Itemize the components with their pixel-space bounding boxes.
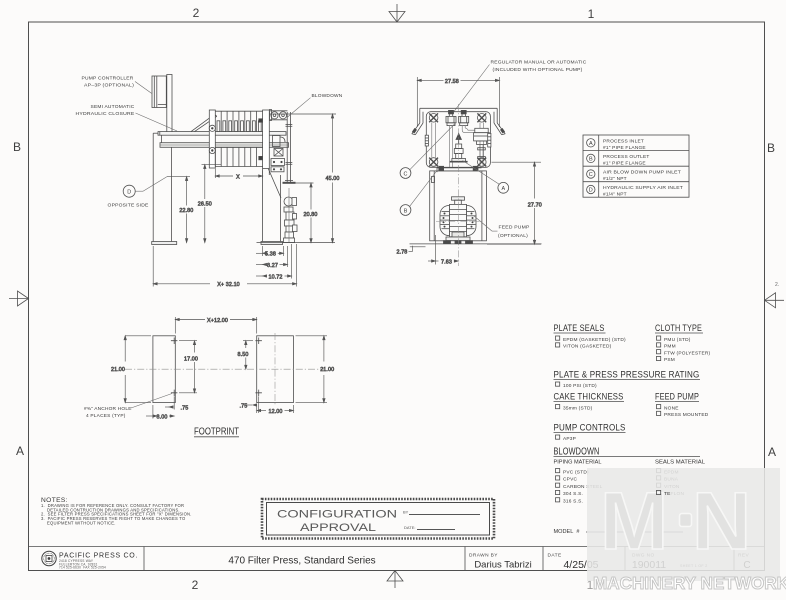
footprint centerline vertical right pad bbox=[274, 333, 276, 406]
side feed pump assembly bbox=[268, 169, 297, 243]
svg-text:20.80: 20.80 bbox=[304, 212, 318, 218]
svg-text:X: X bbox=[236, 174, 240, 180]
svg-text:D: D bbox=[589, 188, 593, 194]
callout B bbox=[400, 171, 437, 216]
svg-text:HYDRAULIC CLOSURE: HYDRAULIC CLOSURE bbox=[76, 111, 135, 117]
machinery network watermark overlay bbox=[587, 468, 780, 581]
svg-text:REGULATOR MANUAL OR AUTOMATIC: REGULATOR MANUAL OR AUTOMATIC bbox=[491, 60, 587, 66]
svg-text:PRESS MOUNTED: PRESS MOUNTED bbox=[664, 412, 709, 418]
fold marker top center bbox=[389, 4, 405, 22]
pacific press logo seal bbox=[42, 551, 56, 565]
anchor hole crosses bbox=[171, 338, 262, 397]
dim 12.00 bbox=[257, 405, 294, 415]
teflon checkbox highlight bbox=[657, 490, 671, 497]
regulator down pipe bbox=[478, 145, 486, 168]
svg-text:A: A bbox=[589, 141, 593, 147]
svg-text:714 525-6630 FAX 525-2054: 714 525-6630 FAX 525-2054 bbox=[59, 566, 106, 570]
feed pump label bbox=[474, 216, 530, 240]
dim 17.00 bbox=[179, 341, 198, 393]
regulator label bbox=[453, 60, 587, 113]
svg-text:1: 1 bbox=[588, 7, 595, 21]
right stand column bbox=[261, 169, 283, 245]
svg-text:MACHINERY NETWORK: MACHINERY NETWORK bbox=[593, 573, 786, 593]
svg-text:HYDRAULIC SUPPLY AIR INLET: HYDRAULIC SUPPLY AIR INLET bbox=[603, 185, 683, 191]
callout C bbox=[400, 122, 456, 178]
feed pump heading bbox=[655, 392, 699, 402]
pump controls heading bbox=[554, 423, 626, 433]
svg-text:PROCESS OUTLET: PROCESS OUTLET bbox=[603, 154, 650, 160]
svg-text:B: B bbox=[13, 140, 21, 154]
piping elbow and gate valve bbox=[271, 136, 285, 166]
svg-text:BY: BY bbox=[403, 510, 409, 515]
fold marker bottom center bbox=[387, 571, 403, 589]
svg-text:MODEL #: MODEL # bbox=[554, 529, 580, 535]
svg-text:PMM: PMM bbox=[664, 344, 676, 350]
blowdown top valve cluster bbox=[270, 110, 288, 121]
head plate bbox=[259, 110, 270, 169]
svg-text:C: C bbox=[404, 171, 408, 177]
svg-text:35mm (STD): 35mm (STD) bbox=[563, 405, 593, 411]
svg-text:PUMP CONTROLLER: PUMP CONTROLLER bbox=[82, 76, 134, 82]
left foot pad bbox=[153, 336, 175, 403]
plate seals heading bbox=[554, 323, 606, 333]
svg-text:#1" PIPE FLANGE: #1" PIPE FLANGE bbox=[603, 145, 646, 151]
plate and press pressure rating heading bbox=[554, 370, 701, 380]
ground line side view bbox=[257, 242, 336, 244]
svg-text:N: N bbox=[692, 476, 751, 567]
svg-text:CONFIGURATION: CONFIGURATION bbox=[277, 509, 397, 521]
svg-text:12.00: 12.00 bbox=[269, 409, 283, 415]
dim 22.80 bbox=[167, 177, 193, 243]
svg-text:2: 2 bbox=[192, 578, 199, 592]
pacific press co name and address bbox=[59, 553, 138, 570]
pipe elbow to regulator bbox=[462, 126, 477, 133]
blowdown heading bbox=[554, 447, 701, 458]
svg-text:VITON (GASKETED): VITON (GASKETED) bbox=[563, 344, 612, 350]
svg-text:B: B bbox=[404, 208, 408, 214]
dim 10.72 bbox=[256, 244, 292, 280]
svg-text:A: A bbox=[16, 444, 24, 458]
svg-text:316 S.S.: 316 S.S. bbox=[563, 499, 583, 505]
svg-text:A: A bbox=[768, 445, 776, 459]
dim 21.00 right bbox=[296, 336, 335, 403]
dim 7.63 bbox=[428, 235, 458, 265]
dim 21.00 left bbox=[111, 336, 151, 403]
svg-text:NONE: NONE bbox=[664, 405, 679, 411]
svg-text:PLATE & PRESS PRESSURE RATING: PLATE & PRESS PRESSURE RATING bbox=[554, 370, 700, 380]
svg-text:27.58: 27.58 bbox=[445, 79, 459, 85]
model number line bbox=[554, 529, 684, 535]
svg-text:PROCESS INLET: PROCESS INLET bbox=[603, 138, 644, 144]
svg-text:2.78: 2.78 bbox=[397, 250, 408, 256]
svg-text:21.00: 21.00 bbox=[111, 367, 125, 373]
bottom manifold pipe bbox=[437, 166, 482, 172]
svg-text:#1/4" NPT: #1/4" NPT bbox=[603, 192, 627, 198]
closure support column bbox=[167, 75, 172, 134]
svg-text:BLOWDOWN: BLOWDOWN bbox=[312, 93, 343, 99]
configuration approval stamp bbox=[262, 499, 494, 539]
svg-text:26.50: 26.50 bbox=[198, 201, 212, 207]
callout A bbox=[463, 161, 509, 194]
svg-text:.75: .75 bbox=[181, 406, 189, 412]
svg-text:FEED PUMP: FEED PUMP bbox=[655, 392, 699, 402]
pump controls checkbox bbox=[556, 435, 577, 442]
left process pipe bbox=[450, 126, 453, 167]
relief valve center bbox=[450, 134, 468, 162]
cloth type heading bbox=[655, 323, 703, 333]
dim .75 left bbox=[165, 397, 188, 412]
left tie rod bbox=[432, 123, 436, 158]
ground line front bbox=[410, 243, 542, 245]
svg-text:2.: 2. bbox=[775, 282, 779, 288]
svg-text:.75: .75 bbox=[240, 403, 248, 409]
dim 5.38 bbox=[256, 246, 284, 258]
dim 8.27 bbox=[256, 246, 288, 269]
hatched cylinder right edge bbox=[488, 133, 491, 147]
connection legend table bbox=[583, 135, 689, 198]
svg-text:SEALS MATERIAL: SEALS MATERIAL bbox=[655, 460, 705, 466]
svg-text:DATE:: DATE: bbox=[404, 525, 415, 530]
pipe fitting below head plate bbox=[271, 167, 284, 172]
svg-text:27.70: 27.70 bbox=[528, 203, 542, 209]
opposite side callout D bbox=[108, 177, 168, 209]
fold marker right center bbox=[765, 293, 785, 308]
air regulator bbox=[474, 128, 490, 144]
svg-text:SEMI AUTOMATIC: SEMI AUTOMATIC bbox=[91, 104, 135, 110]
svg-text:DRAWN BY: DRAWN BY bbox=[469, 553, 498, 559]
svg-text:PUMP CONTROLS: PUMP CONTROLS bbox=[554, 423, 626, 433]
svg-text:M: M bbox=[600, 476, 668, 567]
right foot pad bbox=[257, 336, 294, 403]
title block frame bbox=[29, 547, 765, 571]
svg-text:8.00: 8.00 bbox=[157, 414, 168, 420]
dim 27.58 bbox=[417, 77, 499, 127]
svg-text:(OPTIONAL): (OPTIONAL) bbox=[498, 233, 528, 239]
plate seals checkboxes bbox=[556, 336, 627, 350]
svg-text:#⅜" ANCHOR HOLE: #⅜" ANCHOR HOLE bbox=[84, 406, 132, 412]
svg-text:4 PLACES (TYP): 4 PLACES (TYP) bbox=[86, 413, 126, 419]
svg-text:17.00: 17.00 bbox=[184, 356, 198, 362]
feed pump front bbox=[440, 197, 476, 244]
pressure rating checkbox bbox=[556, 382, 597, 389]
lower filter plate pack bbox=[215, 147, 262, 166]
dim X+12.00 bbox=[175, 317, 256, 334]
svg-text:45.00: 45.00 bbox=[326, 176, 340, 182]
cloth type checkboxes bbox=[657, 336, 711, 363]
lifting arm diagonal brace bbox=[191, 114, 217, 131]
svg-text:8.50: 8.50 bbox=[238, 352, 249, 358]
svg-text:D: D bbox=[127, 190, 131, 196]
dim 45.00 bbox=[270, 114, 340, 243]
dim 8.00 bbox=[146, 405, 174, 420]
svg-text:8.27: 8.27 bbox=[267, 263, 278, 269]
svg-text:BLOWDOWN: BLOWDOWN bbox=[554, 447, 600, 458]
svg-text:X+12.00: X+12.00 bbox=[207, 318, 228, 324]
svg-text:B: B bbox=[589, 156, 593, 162]
svg-text:AP–3P (OPTIONAL): AP–3P (OPTIONAL) bbox=[84, 83, 134, 89]
upper filter plate pack bbox=[215, 111, 262, 131]
footprint title bbox=[194, 427, 239, 438]
cake thickness heading bbox=[554, 392, 625, 402]
hatched cylinder left edge bbox=[425, 135, 428, 146]
dim 8.50 bbox=[238, 341, 253, 370]
svg-text:470 Filter Press, Standard Ser: 470 Filter Press, Standard Series bbox=[228, 556, 375, 567]
svg-text:APPROVAL: APPROVAL bbox=[300, 522, 376, 534]
svg-text:PSM: PSM bbox=[664, 357, 675, 363]
front centerline vertical bbox=[457, 104, 459, 266]
svg-text:PIPING MATERIAL: PIPING MATERIAL bbox=[554, 460, 602, 466]
piping material checkboxes bbox=[556, 469, 603, 505]
cake thickness checkbox bbox=[556, 405, 593, 412]
svg-text:TE: TE bbox=[664, 491, 671, 497]
notes block bbox=[41, 497, 192, 526]
svg-text:10.72: 10.72 bbox=[269, 274, 283, 280]
front centerline horizontal pump bbox=[436, 221, 481, 223]
svg-text:7.63: 7.63 bbox=[441, 259, 452, 265]
blowdown outlet blind flange bbox=[283, 181, 296, 183]
footprint centerline horizontal bbox=[125, 368, 324, 370]
svg-text:EQUIPMENT WITHOUT NOTICE.: EQUIPMENT WITHOUT NOTICE. bbox=[47, 521, 116, 526]
svg-text:PLATE SEALS: PLATE SEALS bbox=[554, 323, 605, 333]
head plate front (rounded) bbox=[426, 112, 490, 168]
dim X plate pack bbox=[215, 169, 262, 181]
svg-text:(INCLUDED WITH OPTIONAL PUMP): (INCLUDED WITH OPTIONAL PUMP) bbox=[493, 67, 583, 73]
svg-text:FEED PUMP: FEED PUMP bbox=[499, 225, 530, 231]
svg-text:A: A bbox=[501, 186, 505, 192]
right tie rod bbox=[480, 123, 484, 158]
follower plate bbox=[209, 110, 215, 168]
dim 27.70 bbox=[487, 162, 542, 244]
dim 26.50 bbox=[198, 165, 221, 243]
svg-text:#1/2" NPT: #1/2" NPT bbox=[603, 176, 627, 182]
svg-text:5.38: 5.38 bbox=[265, 252, 276, 258]
fold marker left center bbox=[9, 291, 29, 306]
svg-text:21.00: 21.00 bbox=[320, 367, 334, 373]
svg-text:AIR BLOW DOWN PUMP INLET: AIR BLOW DOWN PUMP INLET bbox=[603, 170, 681, 176]
semi automatic hydraulic closure label bbox=[76, 104, 178, 131]
pump controller label bbox=[82, 76, 152, 94]
closure beam upper bbox=[158, 132, 286, 136]
svg-text:CLOTH TYPE: CLOTH TYPE bbox=[655, 323, 702, 333]
svg-text:100 PSI (STD): 100 PSI (STD) bbox=[563, 383, 597, 389]
svg-text:304 S.S.: 304 S.S. bbox=[563, 491, 583, 497]
dim X+ 32.10 bbox=[153, 244, 296, 288]
closure beam lower (side bar) bbox=[160, 143, 289, 148]
svg-text:FOOTPRINT: FOOTPRINT bbox=[194, 427, 239, 438]
corner tie rod nuts bbox=[429, 113, 486, 166]
dim 20.80 bbox=[294, 183, 318, 243]
svg-text:AP3P: AP3P bbox=[563, 436, 576, 442]
blowdown vertical pipe bbox=[286, 112, 293, 183]
svg-text:2: 2 bbox=[193, 6, 200, 20]
svg-text:22.80: 22.80 bbox=[179, 208, 193, 214]
anchor hole label bbox=[84, 394, 172, 420]
dim .75 right bbox=[240, 397, 259, 414]
svg-text:EPDM (GASKETED) (STD): EPDM (GASKETED) (STD) bbox=[563, 337, 626, 343]
feed pump checkboxes bbox=[657, 405, 709, 419]
svg-text:CPVC: CPVC bbox=[563, 477, 577, 483]
pump controller panel bbox=[152, 76, 166, 108]
dim 2.78 bbox=[397, 246, 426, 256]
svg-text:FTW (POLYESTER): FTW (POLYESTER) bbox=[664, 350, 711, 356]
hood side wings bbox=[412, 108, 505, 135]
svg-text:OPPOSITE SIDE: OPPOSITE SIDE bbox=[108, 203, 149, 209]
svg-text:#1" PIPE FLANGE: #1" PIPE FLANGE bbox=[603, 160, 646, 166]
svg-text:CAKE THICKNESS: CAKE THICKNESS bbox=[554, 392, 624, 402]
seals material checkboxes bbox=[657, 469, 685, 498]
svg-text:X+ 32.10: X+ 32.10 bbox=[217, 282, 240, 288]
top gland left bbox=[446, 110, 456, 125]
left stand column bbox=[152, 133, 177, 244]
svg-text:PMU (STD): PMU (STD) bbox=[664, 337, 691, 343]
svg-text:PVC (STD): PVC (STD) bbox=[563, 469, 589, 475]
svg-text:C: C bbox=[589, 172, 593, 178]
svg-text:Darius Tabrizi: Darius Tabrizi bbox=[474, 560, 531, 571]
blowdown label bbox=[288, 93, 343, 117]
top gland right bbox=[459, 110, 469, 125]
svg-text:DATE: DATE bbox=[548, 553, 562, 559]
press stand front bbox=[430, 171, 487, 241]
svg-text:B: B bbox=[767, 141, 775, 155]
